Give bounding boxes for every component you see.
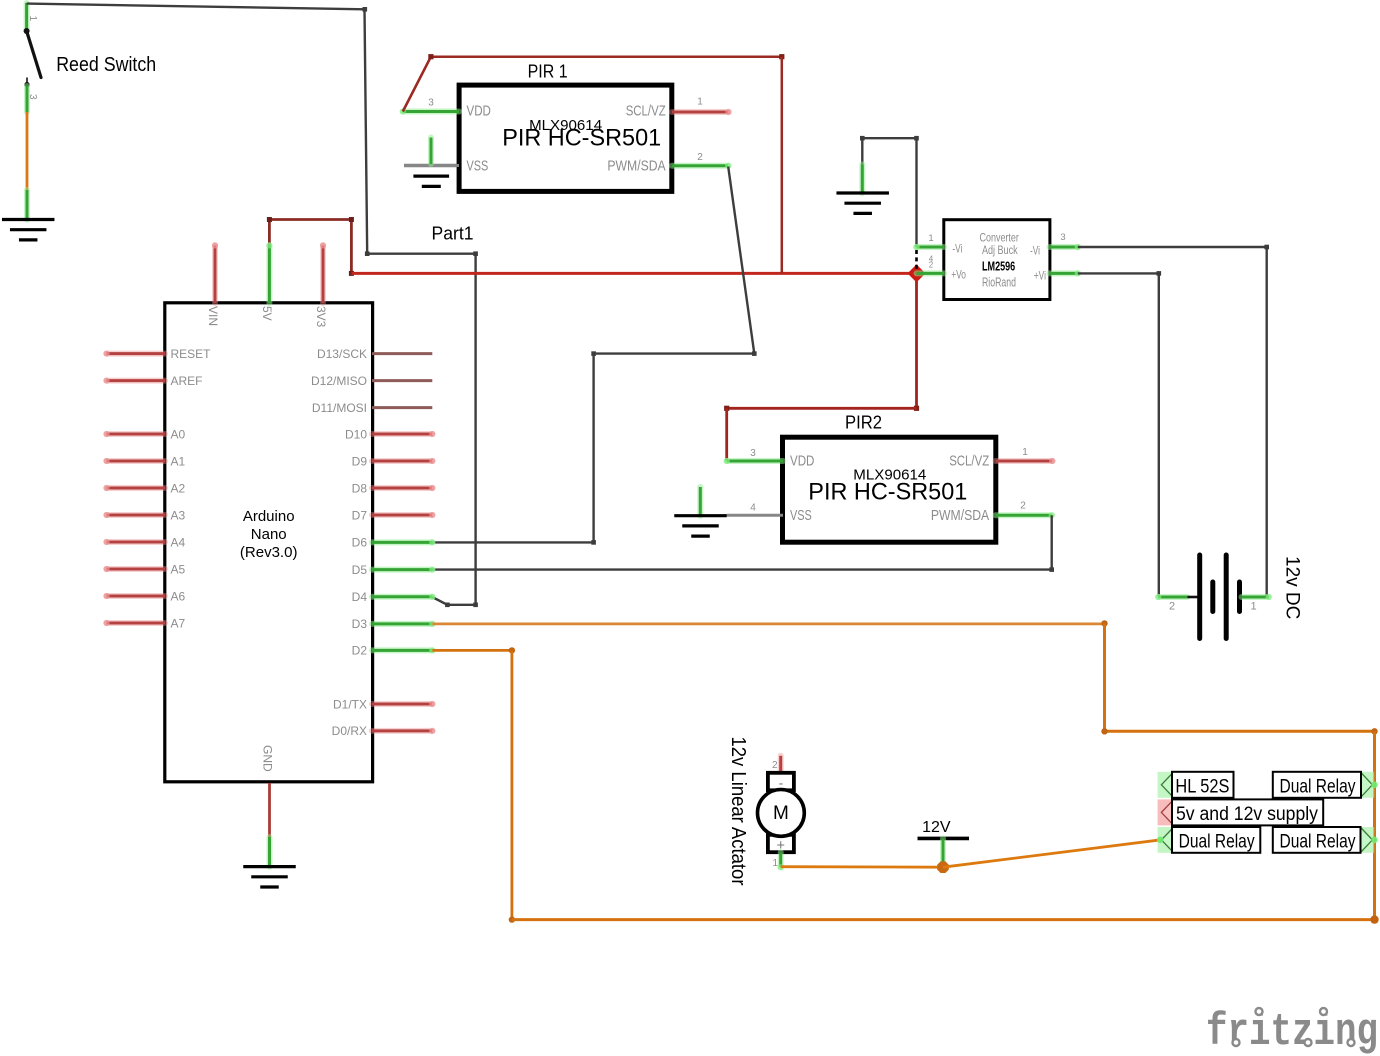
Arduino D10 leg (372, 431, 432, 437)
svg-text:D8: D8 (352, 481, 368, 495)
Arduino D2 leg (372, 647, 432, 653)
svg-text:3V3: 3V3 (314, 306, 328, 328)
Arduino D11/MOSI leg (372, 405, 432, 411)
wire 5V riser dots (267, 217, 272, 222)
Arduino A5 leg (107, 566, 166, 572)
svg-text:Part1: Part1 (432, 222, 474, 243)
svg-text:(Rev3.0): (Rev3.0) (240, 544, 298, 561)
LM2596 +Vi right leg (1050, 270, 1078, 276)
wire D5 vertical up (1050, 515, 1052, 569)
svg-text:4: 4 (750, 503, 756, 514)
junction node 12V (937, 861, 949, 873)
wire down to D4 row (474, 254, 476, 605)
svg-text:VDD: VDD (790, 453, 815, 470)
wire VCC to PIR2: down (915, 273, 918, 408)
svg-text:fritzing: fritzing (1206, 1007, 1378, 1056)
wire gnd down to -Vi (915, 138, 917, 247)
wire dot 2 (1157, 271, 1162, 276)
svg-text:1: 1 (27, 16, 38, 22)
wire top corner dots (428, 54, 433, 59)
svg-text:VSS: VSS (467, 157, 489, 174)
svg-text:RESET: RESET (171, 347, 212, 361)
Arduino 3V3 leg (320, 245, 326, 303)
wire D2 bottom horizontal (512, 918, 1375, 921)
LM2596 -Vi right leg (1050, 244, 1078, 250)
svg-text:PWM/SDA: PWM/SDA (607, 157, 665, 174)
wire gnd horizontal (862, 137, 916, 139)
svg-text:+Vi: +Vi (1034, 268, 1046, 282)
svg-text:+Vo: +Vo (951, 268, 966, 282)
svg-text:D2: D2 (352, 644, 368, 658)
wire D3 dots (1101, 728, 1107, 734)
wire dot 5 (591, 540, 596, 545)
PIR1 VSS leg (gray) (404, 163, 459, 169)
battery plate short 2 (1237, 582, 1242, 612)
wire -Vi to battery right (1078, 246, 1267, 248)
svg-text:D12/MISO: D12/MISO (311, 374, 367, 388)
Arduino D0/RX leg (372, 728, 432, 734)
junction node orange (1370, 915, 1378, 923)
PIR2 SCL/VZ leg (996, 458, 1053, 464)
battery connector (1188, 596, 1199, 599)
svg-text:HL 52S: HL 52S (1175, 776, 1229, 797)
wire PIR1 VDD diagonal (403, 57, 431, 112)
svg-text:Dual Relay: Dual Relay (1179, 832, 1255, 853)
wire D3 dot (1101, 620, 1107, 626)
battery plate long 1 (1197, 555, 1202, 639)
svg-text:PWM/SDA: PWM/SDA (931, 507, 989, 524)
svg-text:A4: A4 (171, 535, 186, 549)
net flag Dual Relay bottom-right (1361, 827, 1375, 853)
Arduino VIN leg (212, 245, 218, 303)
ground symbol (arduino) (243, 865, 296, 868)
svg-text:2: 2 (697, 152, 703, 163)
PIR1 SCL/VZ leg (672, 109, 729, 115)
svg-text:12v Linear Actator: 12v Linear Actator (727, 737, 750, 886)
LM2596 box (944, 220, 1050, 300)
battery pin1 leg (1242, 594, 1269, 600)
Arduino D6 leg (372, 539, 432, 545)
Arduino A7 leg (107, 620, 166, 626)
svg-text:Reed Switch: Reed Switch (56, 54, 156, 76)
svg-text:1: 1 (928, 233, 933, 244)
LM2596 -Vi leg (917, 244, 945, 250)
Arduino D9 leg (372, 458, 432, 464)
wire D2 horizontal (432, 649, 512, 652)
svg-text:D1/TX: D1/TX (333, 697, 367, 711)
wire 12V junction to relay (943, 840, 1161, 867)
svg-text:D5: D5 (352, 563, 368, 577)
wire elbow dot 3 (473, 603, 478, 608)
reed switch contact 3 (24, 82, 29, 87)
svg-text:3: 3 (1060, 232, 1065, 243)
wire battery right vertical (1265, 247, 1267, 597)
svg-text:-Vi: -Vi (1030, 244, 1040, 258)
ground symbol (mid) (836, 191, 889, 194)
svg-text:Adj Buck: Adj Buck (982, 245, 1018, 257)
svg-text:RioRand: RioRand (982, 275, 1016, 289)
svg-text:1: 1 (1022, 447, 1028, 458)
wire reed-3 to ground (orange) (26, 112, 29, 190)
motor pin1 leg (778, 852, 784, 867)
motor pin2 leg (778, 756, 784, 772)
svg-text:D11/MOSI: D11/MOSI (312, 401, 367, 415)
Arduino Nano box (165, 303, 373, 782)
wire D3 down to relay (1373, 731, 1376, 919)
svg-text:AREF: AREF (171, 374, 203, 388)
LM2596 +Vo leg (917, 270, 945, 276)
svg-text:12v DC: 12v DC (1282, 556, 1303, 619)
svg-text:1: 1 (697, 97, 703, 108)
svg-text:3: 3 (750, 448, 756, 459)
wire down at 782 (781, 57, 784, 274)
Arduino D1/TX leg (372, 701, 432, 707)
wire to D6 (432, 541, 593, 543)
svg-text:Arduino: Arduino (243, 508, 295, 525)
Arduino RESET leg (107, 351, 166, 357)
PIR2 box (783, 437, 996, 542)
motor body circle (758, 790, 805, 837)
wire PWM1 horizontal (594, 352, 755, 354)
wire D2 down (510, 650, 513, 919)
wire VCC main horizontal (351, 272, 916, 275)
Arduino 5V leg (266, 245, 272, 303)
svg-text:A5: A5 (171, 562, 186, 576)
battery plate long 2 (1224, 555, 1229, 639)
Arduino GND wire (red) (268, 783, 271, 837)
wire VCC to PIR2: down2 (725, 408, 728, 461)
svg-text:VDD: VDD (467, 103, 492, 120)
wire motor to 12V junction (781, 865, 943, 868)
svg-text:D10: D10 (345, 427, 367, 441)
Arduino D8 leg (372, 485, 432, 491)
wire D2 dot (509, 647, 515, 653)
svg-text:SCL/VZ: SCL/VZ (949, 453, 989, 470)
wire elbow dot 2 (473, 251, 478, 256)
reed switch blade (27, 31, 41, 78)
svg-text:3: 3 (428, 98, 434, 109)
svg-text:D7: D7 (352, 508, 368, 522)
svg-text:Converter: Converter (980, 233, 1020, 245)
wire PWM1 diagonal (728, 167, 754, 354)
svg-text:A0: A0 (171, 427, 186, 441)
PIR1 ground bars (413, 175, 449, 178)
svg-text:12V: 12V (922, 819, 951, 836)
wire tip glow dots (1157, 837, 1164, 844)
svg-text:PIR HC-SR501: PIR HC-SR501 (502, 125, 661, 152)
ground symbol (PIR2) (674, 514, 727, 517)
svg-text:A7: A7 (171, 616, 186, 630)
net flag HL 52S (1158, 772, 1174, 798)
wire VCC to PIR2: left (727, 407, 917, 410)
svg-text:5v and 12v supply: 5v and 12v supply (1176, 804, 1318, 825)
svg-text:Dual Relay: Dual Relay (1280, 776, 1356, 797)
reed switch contact 1 dot (24, 28, 30, 34)
wire +Vi to battery left (1078, 272, 1159, 274)
motor bottom terminal box (768, 835, 794, 852)
Arduino A3 leg (107, 512, 166, 518)
wire down to Part1 row (365, 9, 368, 253)
wire battery left vertical (1158, 273, 1160, 597)
wire diagonal to D4 pin (432, 597, 447, 605)
wire left toward D4 (447, 604, 475, 606)
svg-text:A1: A1 (171, 454, 186, 468)
wire corner dot (363, 7, 368, 12)
ground pin leg (arduino) (267, 837, 273, 867)
Arduino A0 leg (107, 431, 166, 437)
PIR1 ground top bar (404, 164, 458, 167)
wire D3 path (1103, 623, 1106, 731)
Arduino A4 leg (107, 539, 166, 545)
ground pin leg (mid) (859, 165, 865, 194)
Arduino A1 leg (107, 458, 166, 464)
wire dot 3 (752, 351, 757, 356)
wire elbow dot PIR2 feed 2 (724, 406, 729, 411)
svg-text:D0/RX: D0/RX (332, 724, 367, 738)
Arduino D3 leg (372, 621, 432, 627)
svg-text:2: 2 (772, 760, 778, 771)
wire dot (1264, 245, 1269, 250)
net flag Dual Relay top-right (1361, 772, 1375, 798)
reed switch pin 3 leg (24, 86, 30, 112)
Arduino D5 leg (372, 567, 432, 573)
net flag Dual Relay bottom-left (1158, 827, 1174, 853)
wire dot 4 (591, 351, 596, 356)
PIR1 ground pin leg (428, 138, 434, 165)
Arduino A2 leg (107, 485, 166, 491)
svg-text:PIR2: PIR2 (845, 413, 882, 433)
Arduino AREF leg (107, 378, 166, 384)
svg-text:SCL/VZ: SCL/VZ (626, 103, 666, 120)
ground symbol (reed) (2, 218, 55, 221)
wire gnd dots (860, 136, 865, 141)
wire PWM1 vertical (592, 354, 594, 543)
svg-text:PIR 1: PIR 1 (528, 62, 568, 82)
Arduino D4 leg (372, 594, 432, 600)
wire reed pin1 to corner (27, 4, 365, 10)
svg-text:GND: GND (260, 745, 274, 772)
wire elbow dot 4 (445, 603, 450, 608)
svg-text:-Vi: -Vi (952, 242, 962, 256)
wire 5V riser (268, 220, 271, 246)
ground pin leg (PIR2) (697, 487, 703, 516)
svg-text:D4: D4 (352, 590, 368, 604)
svg-text:5V: 5V (260, 306, 274, 321)
LM2596 dashed bus link (915, 250, 918, 270)
svg-text:D6: D6 (352, 536, 368, 550)
Arduino D13/SCK leg (372, 351, 432, 357)
PIR1 box (459, 85, 672, 191)
Arduino D7 leg (372, 512, 432, 518)
battery plate short 1 (1210, 582, 1215, 612)
12V pin leg (940, 838, 946, 867)
reed switch pin 1 leg (24, 3, 30, 31)
svg-text:1: 1 (1250, 601, 1256, 613)
Arduino D12/MISO leg (372, 378, 432, 384)
svg-text:2: 2 (929, 261, 934, 270)
svg-text:PIR HC-SR501: PIR HC-SR501 (808, 479, 967, 506)
svg-text:D9: D9 (352, 454, 368, 468)
wire D5 horizontal (432, 568, 1052, 570)
PIR1 PWM/SDA leg (672, 163, 728, 169)
svg-text:1: 1 (772, 858, 778, 869)
wire dot 6 (1049, 567, 1054, 572)
PIR2 PWM/SDA leg (996, 512, 1052, 518)
ground pin leg (reed) (24, 190, 30, 220)
wire D3 horizontal (432, 623, 1104, 626)
svg-text:A3: A3 (171, 508, 186, 522)
svg-text:2: 2 (1169, 601, 1175, 613)
motor top terminal box (768, 773, 794, 791)
PIR2 VDD leg (727, 458, 783, 464)
Arduino A6 leg (107, 593, 166, 599)
svg-text:2: 2 (1020, 501, 1026, 512)
PIR1 VDD leg (403, 109, 459, 115)
wire elbow dot PIR2 feed (914, 406, 919, 411)
net flag 5v and 12v supply (1158, 799, 1174, 825)
PIR2 VSS leg (gray) (727, 512, 783, 518)
junction node VCC (908, 264, 926, 282)
svg-text:Dual Relay: Dual Relay (1280, 832, 1356, 853)
svg-text:D13/SCK: D13/SCK (317, 347, 367, 361)
wire top horizontal (431, 55, 782, 58)
12V bar (918, 837, 970, 841)
svg-text:A2: A2 (171, 481, 186, 495)
wire elbow dot (365, 251, 370, 256)
svg-text:A6: A6 (171, 589, 186, 603)
svg-text:D3: D3 (352, 617, 368, 631)
svg-text:VSS: VSS (790, 507, 812, 524)
svg-text:M: M (773, 803, 789, 824)
wire Part1 horizontal (367, 252, 475, 254)
battery pin2 leg (1158, 594, 1187, 600)
wire gnd down to pin (861, 138, 863, 164)
svg-text:LM2596: LM2596 (982, 259, 1015, 273)
svg-text:Nano: Nano (251, 526, 287, 543)
wire D2 dot2 (509, 916, 515, 922)
svg-text:VIN: VIN (206, 306, 220, 326)
